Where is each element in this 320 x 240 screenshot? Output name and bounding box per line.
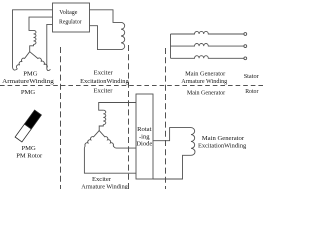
- svg-text:ExcitationWinding: ExcitationWinding: [198, 143, 247, 150]
- svg-text:Armature Winding: Armature Winding: [181, 78, 228, 85]
- dashed vertical line main-generator/labels boundary: [165, 48, 167, 189]
- wire diode box to main generator excitation coil top: [153, 128, 191, 141]
- PMG armature right limb with scallops: [30, 52, 48, 68]
- PMG armature left limb with scallops: [16, 52, 29, 69]
- coil exciter armature top limb: [103, 110, 106, 124]
- svg-text:Diode: Diode: [136, 141, 152, 148]
- exciter armature right limb with scallops: [99, 131, 113, 146]
- wire main generator excitation coil bottom return to diode box: [153, 155, 191, 179]
- svg-text:Exciter: Exciter: [93, 88, 113, 95]
- dashed vertical line exciter/main-generator boundary: [128, 45, 130, 189]
- rotating diode box: [136, 94, 153, 179]
- svg-text:PMG: PMG: [23, 70, 38, 77]
- wire exciter armature top limb to diode box: [99, 103, 136, 111]
- svg-text:Armature Winding: Armature Winding: [81, 183, 128, 189]
- wire exciter left limb hook down and to diode box bottom: [84, 146, 136, 173]
- exciter armature left limb with scallops: [85, 131, 99, 146]
- coil exciter excitation winding: [121, 22, 125, 49]
- svg-text:Exciter: Exciter: [94, 70, 114, 77]
- svg-text:Rotat: Rotat: [137, 126, 151, 133]
- main generator armature phase 2 wire and coil: [171, 43, 244, 46]
- svg-text:-ing: -ing: [139, 133, 150, 140]
- svg-text:ExcitationWinding: ExcitationWinding: [80, 78, 129, 85]
- wire exciter right limb hook to diode box: [113, 146, 136, 148]
- svg-text:PMG: PMG: [21, 145, 36, 152]
- svg-text:Regulator: Regulator: [59, 19, 82, 26]
- dashed vertical line PMG/exciter boundary: [60, 47, 62, 189]
- wire regulator output+ to exciter excitation coil top: [90, 10, 122, 23]
- svg-text:Voltage: Voltage: [59, 9, 77, 16]
- wire phase B: regulator to PMG coil: [29, 17, 53, 30]
- main generator armature phase 1 wire and coil: [171, 31, 244, 34]
- terminal circle phase 3: [244, 57, 247, 60]
- dashed horizontal line stator/rotor: [0, 85, 266, 87]
- terminal circle phase 1: [244, 33, 247, 36]
- svg-text:Stator: Stator: [244, 73, 260, 80]
- coil main generator excitation winding: [191, 128, 195, 156]
- wire exciter coil to star point: [99, 125, 103, 131]
- svg-text:PM Rotor: PM Rotor: [16, 152, 43, 159]
- svg-text:Main Generator: Main Generator: [185, 70, 226, 77]
- wire regulator output- to exciter excitation coil bottom: [90, 26, 122, 50]
- svg-text:ArmatureWinding: ArmatureWinding: [2, 78, 54, 85]
- svg-text:Main Generator: Main Generator: [202, 135, 245, 142]
- terminal circle phase 2: [244, 45, 247, 48]
- svg-text:PMG: PMG: [21, 89, 36, 96]
- svg-text:Rotor: Rotor: [245, 88, 259, 95]
- main generator armature bus: [170, 34, 172, 58]
- wire PMG coil to star point: [30, 44, 34, 51]
- coil PMG armature top limb: [34, 30, 37, 44]
- voltage regulator box: [53, 3, 90, 32]
- svg-text:Main Generator: Main Generator: [187, 89, 226, 96]
- main generator armature phase 3 wire and coil: [171, 56, 244, 59]
- svg-text:Exciter: Exciter: [92, 176, 112, 183]
- PMG PM rotor symbol: [15, 110, 41, 142]
- wire phase C: regulator to PMG right limb: [47, 24, 53, 70]
- wire phase A: regulator to PMG left limb: [13, 10, 53, 70]
